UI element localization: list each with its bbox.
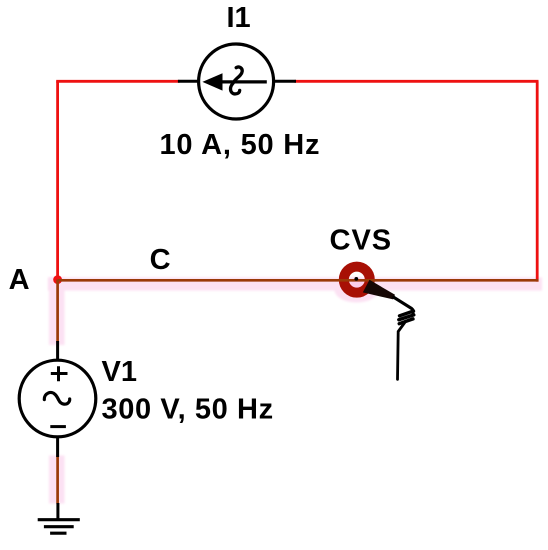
wire: red loop top horizontal right part bbox=[295, 80, 539, 83]
ground: bar 3 (bottom, shortest) bbox=[50, 532, 66, 535]
wire highlight (pink) along node A to V1 vertical wire bbox=[49, 277, 65, 345]
current source I1: circle body bbox=[199, 44, 274, 119]
ground: bar 2 (middle) bbox=[44, 525, 74, 528]
svg-text:C: C bbox=[150, 244, 171, 276]
CVS current sensor: ring bbox=[344, 267, 370, 293]
current source I1: arrow shaft bbox=[208, 80, 267, 83]
voltage source V1: bottom pin stub bbox=[56, 436, 59, 457]
CVS current sensor: coil loops bbox=[399, 311, 414, 324]
wire highlight (pink) around CVS sensor bbox=[335, 278, 379, 303]
wire: red loop top horizontal bbox=[56, 80, 179, 83]
wire: red loop right vertical bbox=[536, 81, 539, 281]
voltage source V1: top pin stub bbox=[56, 341, 59, 361]
current source I1: AC squiggle (vertical tilde) bbox=[230, 67, 242, 94]
svg-text:A: A bbox=[9, 264, 30, 296]
svg-text:I1: I1 bbox=[227, 2, 251, 34]
wire: brown vertical from node A down to V1 pin bbox=[56, 280, 59, 342]
ground: bar 1 (top, widest) bbox=[38, 518, 80, 521]
current source I1: arrow head (points left) bbox=[202, 73, 222, 90]
CVS current sensor: pink hole backdrop bbox=[350, 278, 364, 292]
wire highlight (pink) along V1 to ground vertical wire bbox=[49, 456, 65, 504]
svg-text:10 A, 50 Hz: 10 A, 50 Hz bbox=[160, 129, 321, 161]
wire: brown horizontal net from node A to right corner bbox=[58, 279, 539, 282]
voltage source V1: circle body bbox=[19, 360, 96, 437]
voltage source V1: plus sign bbox=[51, 366, 68, 381]
current source I1: right pin stub bbox=[273, 80, 296, 83]
svg-text:CVS: CVS bbox=[330, 224, 393, 256]
current source I1: left pin stub bbox=[178, 80, 199, 83]
ground: pin stub bbox=[56, 503, 59, 520]
wire highlight (pink) along node-A horizontal net bbox=[48, 277, 542, 290]
CVS current sensor: probe lead wire down bbox=[398, 322, 406, 380]
wire: brown vertical from V1 bottom pin to ground pin bbox=[56, 457, 59, 504]
wire: red loop left vertical (node A up to top) bbox=[56, 81, 59, 279]
voltage source V1: sine symbol bbox=[44, 393, 69, 405]
voltage source V1: minus sign bbox=[50, 425, 66, 428]
svg-text:300 V, 50 Hz: 300 V, 50 Hz bbox=[102, 394, 274, 426]
CVS current sensor: probe cone body bbox=[363, 280, 395, 300]
CVS current sensor: probe cable to coil bbox=[394, 297, 413, 313]
CVS current sensor: center dot bbox=[354, 277, 358, 281]
svg-text:V1: V1 bbox=[102, 356, 137, 388]
node A junction dot bbox=[53, 275, 62, 284]
